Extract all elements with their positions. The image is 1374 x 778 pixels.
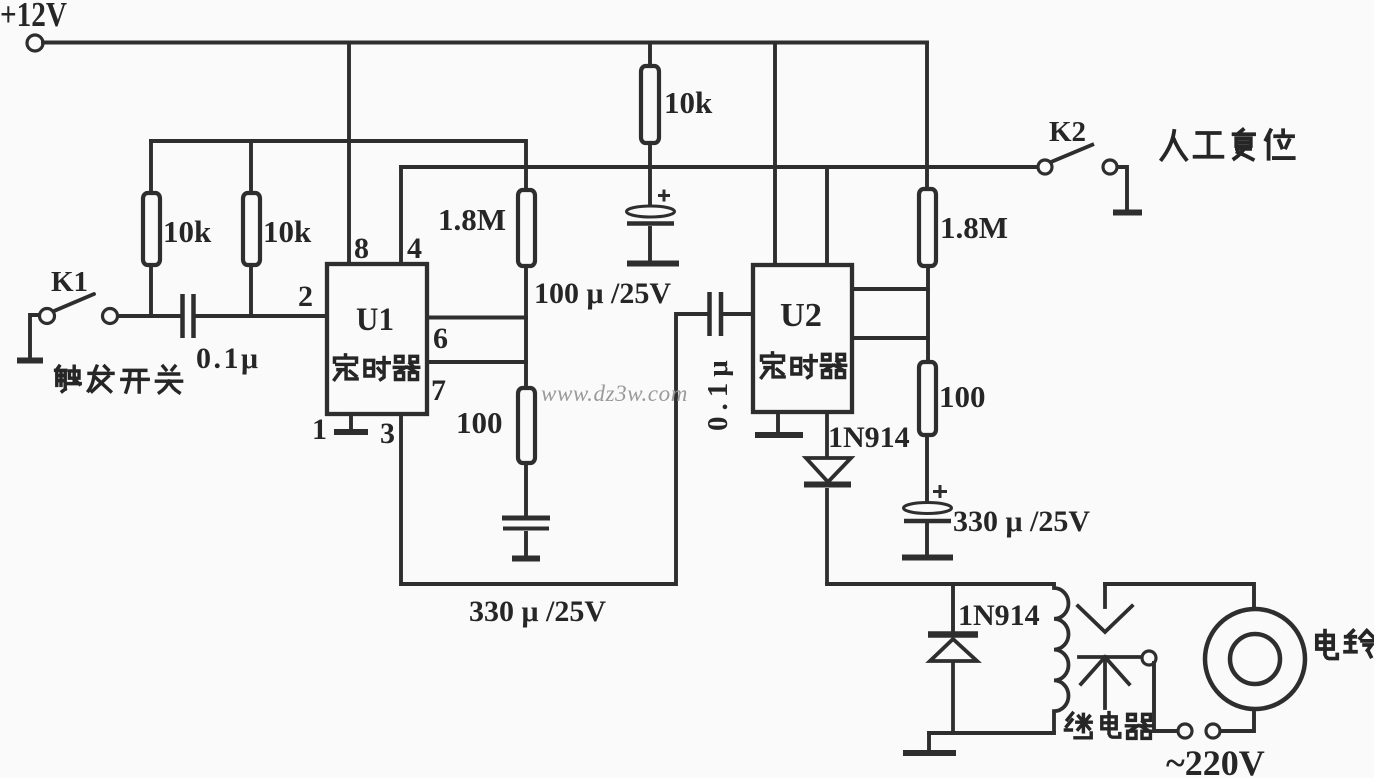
wire 100 right to C5 bbox=[925, 435, 929, 503]
svg-text:1.8M: 1.8M bbox=[438, 202, 506, 237]
contact terminal bbox=[1142, 651, 1156, 665]
ground K2 bbox=[1113, 210, 1142, 216]
capacitor C5 330u/25V right bbox=[904, 485, 952, 555]
wire K1 to C1 bbox=[118, 314, 327, 318]
resistor R1 10k bbox=[143, 193, 160, 265]
svg-text:330 μ /25V: 330 μ /25V bbox=[469, 595, 606, 628]
svg-text:6: 6 bbox=[433, 322, 448, 355]
wire output bus y584 bbox=[827, 584, 1054, 631]
svg-text:0.1μ: 0.1μ bbox=[702, 354, 734, 431]
resistor R3 10k top middle bbox=[641, 66, 659, 143]
label dianling (electric bell) bbox=[1317, 631, 1374, 659]
svg-text:+12V: +12V bbox=[0, 0, 67, 34]
resistor R2 10k bbox=[243, 193, 260, 265]
ground C2 bbox=[627, 261, 679, 267]
wire contact to 220V bbox=[1154, 663, 1177, 731]
wire 1.8M right to 100 right bbox=[926, 266, 930, 362]
ground U1 pin1 bbox=[334, 429, 368, 435]
wire 10k1 leads bbox=[149, 141, 153, 316]
svg-text:U1: U1 bbox=[356, 302, 394, 338]
wire rail drop right to 1.8M bbox=[925, 43, 929, 190]
bell bbox=[1205, 609, 1305, 709]
svg-text:1N914: 1N914 bbox=[958, 599, 1040, 632]
wire U1 pin7 bbox=[427, 360, 526, 364]
wire U2 right bottom bbox=[852, 336, 928, 340]
wire U2 right top bbox=[852, 287, 928, 291]
wire U1 pin4 drop bbox=[399, 167, 403, 264]
wire U2 pin1 stem bbox=[776, 412, 780, 433]
svg-text:1N914: 1N914 bbox=[828, 421, 910, 454]
switch K1 bbox=[30, 294, 118, 359]
wire U1 pin1 ground stem bbox=[349, 414, 353, 430]
wire top rail bbox=[43, 41, 927, 45]
terminal 220V b bbox=[1206, 724, 1220, 738]
ground U2 pin1 bbox=[755, 432, 803, 438]
svg-text:8: 8 bbox=[354, 232, 369, 265]
svg-text:www.dz3w.com: www.dz3w.com bbox=[541, 381, 688, 406]
svg-text:3: 3 bbox=[380, 417, 395, 450]
svg-text:~220V: ~220V bbox=[1166, 743, 1265, 778]
wire U1 pin3 path bbox=[401, 314, 707, 584]
svg-text:10k: 10k bbox=[664, 85, 713, 120]
svg-text:1: 1 bbox=[312, 413, 327, 446]
svg-text:330 μ /25V: 330 μ /25V bbox=[953, 505, 1090, 538]
resistor R7 100 right bbox=[919, 362, 936, 435]
label dingshiqi U1 (timer) bbox=[334, 355, 418, 380]
wire U2 pin4 drop bbox=[825, 167, 829, 265]
label chufakaiguan (trigger switch) bbox=[56, 366, 182, 392]
capacitor C1 0.1u bbox=[183, 294, 194, 338]
wire bus y167 bbox=[401, 165, 1038, 169]
wire 1.8M to 100 vertical bbox=[524, 266, 528, 388]
svg-text:100 μ /25V: 100 μ /25V bbox=[534, 277, 671, 310]
diode D2 1N914 bbox=[928, 635, 978, 733]
svg-text:U2: U2 bbox=[780, 297, 822, 334]
resistor R6 100 left bbox=[518, 388, 535, 463]
svg-text:100: 100 bbox=[456, 405, 503, 440]
+12V terminal bbox=[27, 35, 43, 51]
wire U1 pin6 bbox=[427, 316, 526, 320]
svg-text:1.8M: 1.8M bbox=[940, 210, 1008, 245]
capacitor C2 100u/25V bbox=[627, 143, 675, 261]
relay contact bbox=[1078, 584, 1141, 708]
wire 100 to C4 bbox=[524, 463, 528, 516]
svg-text:10k: 10k bbox=[263, 214, 312, 249]
wire U1 pin8 drop bbox=[347, 43, 351, 265]
ground C5 bbox=[902, 555, 953, 561]
wire 10k top middle drop bbox=[648, 43, 652, 67]
ground relay bbox=[903, 750, 956, 756]
wire C1 to U1 pin2 bbox=[196, 314, 327, 318]
switch K2 bbox=[1038, 144, 1127, 211]
wire U2 pin drop bbox=[773, 43, 777, 266]
svg-text:7: 7 bbox=[431, 374, 446, 407]
svg-text:4: 4 bbox=[407, 232, 422, 265]
wire relay bottom bbox=[929, 733, 1054, 751]
terminal 220V a bbox=[1178, 724, 1192, 738]
svg-text:K2: K2 bbox=[1049, 116, 1086, 148]
ground K1 bbox=[17, 358, 43, 364]
IC U2 timer (555) box bbox=[753, 265, 852, 412]
label rengongfuwei (manual reset) bbox=[1162, 130, 1294, 160]
resistor R4 1.8M left bbox=[518, 190, 535, 266]
wire bus y141 bbox=[151, 141, 526, 190]
resistor R5 1.8M right bbox=[919, 189, 936, 266]
diode D1 1N914 bbox=[804, 412, 851, 584]
label jidianqi (relay) bbox=[1065, 713, 1151, 739]
ground C4 bbox=[512, 556, 540, 562]
capacitor C3 0.1u coupling bbox=[710, 292, 722, 336]
svg-text:10k: 10k bbox=[163, 214, 212, 249]
IC U1 timer (555) box bbox=[327, 264, 427, 414]
svg-text:100: 100 bbox=[939, 379, 986, 414]
svg-text:2: 2 bbox=[298, 280, 313, 313]
svg-text:K1: K1 bbox=[51, 266, 88, 298]
relay coil bbox=[1054, 584, 1069, 733]
wire 220V to bell bbox=[1105, 584, 1254, 731]
label dingshiqi U2 (timer) bbox=[761, 353, 845, 378]
wire 10k2 leads bbox=[249, 141, 253, 316]
capacitor C4 330u/25V left bbox=[502, 518, 550, 556]
svg-text:0.1μ: 0.1μ bbox=[196, 342, 261, 375]
